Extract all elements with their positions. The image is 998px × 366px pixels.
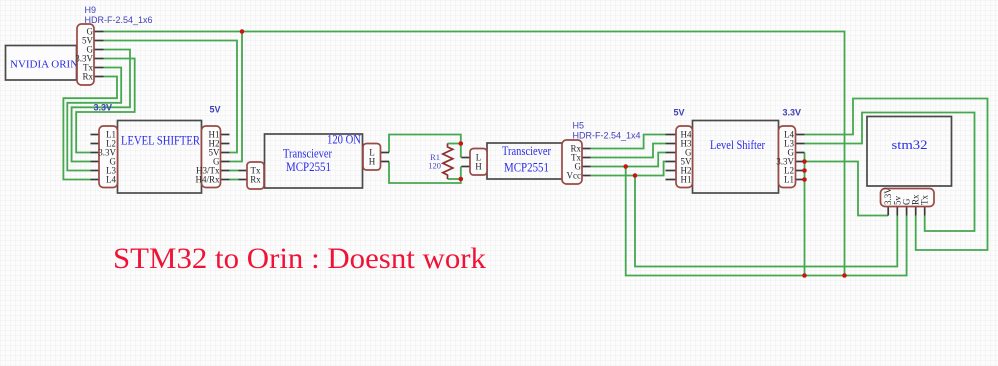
svg-text:Transciever: Transciever (283, 147, 333, 161)
junction H5.G branch to ground rail (623, 164, 628, 169)
junction R1 bottom lead on CAN-H (459, 177, 464, 182)
wire H9.3.3V S-route to LS1 left 3.3V pin (76, 59, 135, 153)
net label 3.3V at LS2 right (783, 108, 802, 118)
wire ground rail B: G junction down, across bottom, up to stm32 G (626, 167, 907, 276)
wire CAN-L loop: T1.L over top to R1 top and T2.L (389, 135, 461, 158)
wire LS2.L3 loop over stm32 to stm32 Tx (805, 113, 975, 232)
connector LS2 right pins L4 L3 G 3.3V L2 L1 (776, 126, 804, 188)
svg-text:L4: L4 (106, 175, 116, 185)
svg-text:3.3V: 3.3V (94, 103, 113, 113)
svg-text:Rx: Rx (250, 175, 261, 185)
label H5 refdes (573, 121, 585, 131)
svg-text:NVIDIA ORIN: NVIDIA ORIN (10, 59, 78, 71)
svg-text:Rx: Rx (82, 72, 93, 82)
svg-text:Tx: Tx (920, 195, 930, 205)
junction H9.G bus meets ground rail (842, 273, 847, 278)
wire H9.Tx S-route to LS1 left L3 pin (67, 68, 121, 171)
junction G vertical meets ground rail (802, 273, 807, 278)
caption STM32 to Orin : Doesnt work (113, 243, 486, 275)
connector LS1 left pins L1 L2 3.3V G L3 L4 (91, 126, 118, 188)
block transceiver U3 MCP2551 (487, 143, 566, 179)
connector H5 HDR-F-2.54_1x4 pins Rx Tx G Vcc (562, 140, 591, 184)
wire power rail A: Vcc junction down, across bottom, up to stm32 5v (635, 176, 897, 267)
connector H9 HDR-F-2.54_1x6 (75, 24, 103, 85)
wire H9.Rx S-route to LS1 left L4 pin (63, 77, 117, 180)
svg-text:120: 120 (428, 161, 441, 171)
svg-text:HDR-F-2.54_1x6: HDR-F-2.54_1x6 (85, 15, 153, 25)
connector LS2 left pins H4 H3 G 5V H2 H1 (666, 126, 693, 188)
net label 5V at LS1 right (210, 105, 221, 115)
svg-text:H1: H1 (681, 175, 692, 185)
svg-text:5V: 5V (210, 105, 221, 115)
net label 5V at LS2 left (674, 108, 685, 118)
junction on H9.G bus at branch to LS1 G (240, 29, 245, 34)
svg-text:120 ON: 120 ON (327, 133, 361, 147)
connector stm32 bottom pins 3.3V 5v G Rx Tx (881, 187, 935, 216)
wire LS1 H3/Tx to T1 Tx (230, 170, 239, 172)
wire LS1 H4/Rx to T1 Rx (230, 179, 239, 181)
wire LS2 3.3V to stm32 3.3V pin (805, 162, 889, 216)
wire H9.5V down to LS1 right 5V pin (104, 41, 238, 153)
net label 3.3V at LS1 left (94, 103, 113, 113)
svg-text:H: H (369, 157, 376, 167)
svg-text:H5: H5 (573, 121, 585, 131)
label H5 value HDR-F-2.54_1x4 (573, 131, 641, 141)
junction LS2 L2 pin on G vertical (802, 168, 807, 173)
wire H9.G pin3 S-route to LS1 left G pin (72, 50, 130, 162)
svg-text:Vcc: Vcc (567, 171, 582, 181)
block NVIDIA ORIN (6, 46, 79, 81)
connector T1 left pins Tx Rx (239, 162, 265, 189)
svg-text:MCP2551: MCP2551 (504, 161, 549, 175)
svg-text:stm32: stm32 (892, 138, 928, 152)
connector T2 left pins L H (461, 149, 487, 176)
wire H5.G to LS2 G (591, 153, 666, 167)
block LEVEL SHIFTER U1 (118, 121, 202, 194)
label H9 value HDR-F-2.54_1x6 (85, 15, 153, 25)
resistor R1 120 termination (443, 144, 453, 180)
wire LS2.L4 loop over stm32 to stm32 Rx (805, 99, 988, 251)
block Level Shifter U4 (693, 121, 779, 194)
connector LS1 right pins H1 H2 5V G H3/Tx H4/Rx (195, 126, 229, 188)
label H9 refdes (85, 5, 97, 15)
wire branch from junction at (242,31.5) down to LS1 right G pin (230, 32, 243, 162)
svg-text:H4/Rx: H4/Rx (195, 175, 220, 185)
label R1 refdes (430, 152, 440, 162)
svg-text:Transciever: Transciever (502, 144, 552, 158)
svg-text:MCP2551: MCP2551 (286, 160, 331, 174)
wire H9.G pin1 top bus to far right, down to ground rail (104, 32, 845, 276)
junction LS2 3.3V pin on G vertical (802, 159, 807, 164)
svg-text:3.3V: 3.3V (783, 108, 802, 118)
wire H5.Tx to LS2 H3 (591, 144, 666, 158)
svg-text:H9: H9 (85, 5, 97, 15)
wire LS2.G vertical tying G,3.3V,L2,L1 down to ground rail (804, 153, 806, 276)
wire CAN-H loop: T1.H under bottom to R1 bottom and T2.H (389, 162, 461, 184)
svg-text:STM32 to Orin : Doesnt work: STM32 to Orin : Doesnt work (113, 243, 486, 275)
block transceiver U2 MCP2551 (265, 133, 363, 189)
label R1 value 120 (428, 161, 441, 171)
svg-text:HDR-F-2.54_1x4: HDR-F-2.54_1x4 (573, 131, 641, 141)
block stm32 (867, 117, 952, 187)
junction LS2 L1 pin on G vertical (802, 177, 807, 182)
wire H5.Rx to LS2 H4 (591, 135, 666, 149)
junction H5.Vcc branch to power rail (633, 173, 638, 178)
wire H5.Vcc to LS2 5V (591, 162, 666, 176)
svg-text:H: H (475, 162, 482, 172)
junction R1 top lead on CAN-L (459, 141, 464, 146)
svg-text:5V: 5V (674, 108, 685, 118)
svg-text:L1: L1 (784, 175, 794, 185)
connector T1 right pins L H (363, 144, 389, 171)
svg-text:Level Shifter: Level Shifter (710, 138, 766, 152)
svg-text:LEVEL SHIFTER: LEVEL SHIFTER (121, 134, 201, 148)
